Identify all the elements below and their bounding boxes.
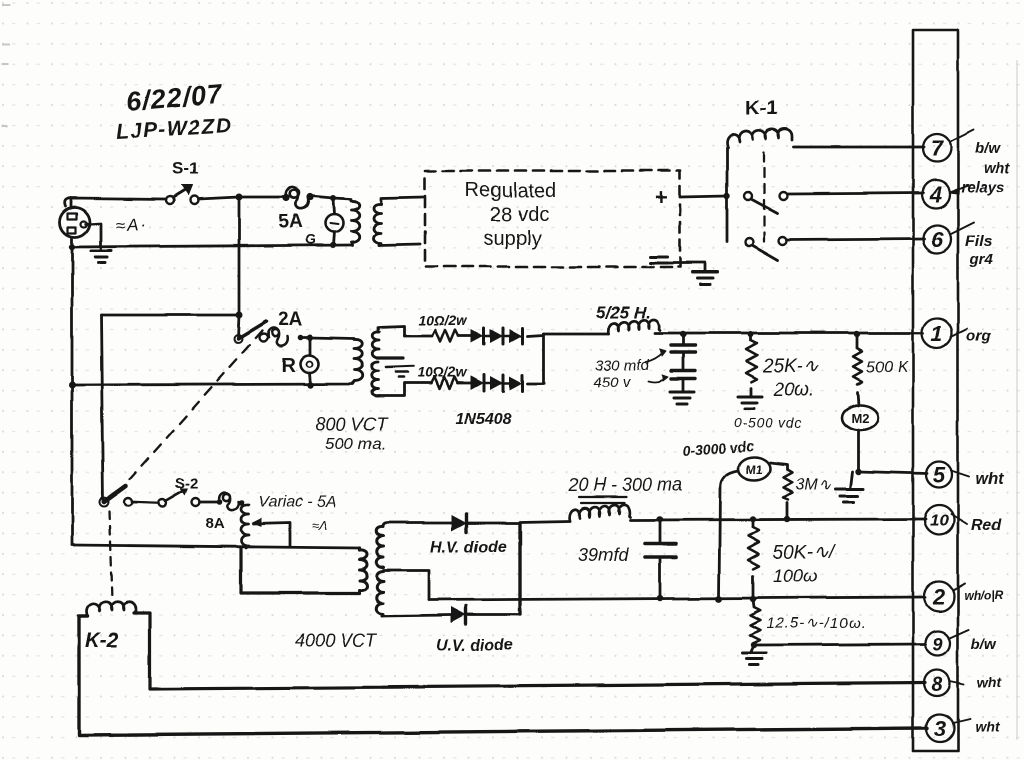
svg-text:gr4: gr4 (969, 251, 994, 268)
svg-text:8: 8 (931, 674, 943, 696)
svg-text:Fils: Fils (965, 233, 993, 250)
svg-text:wht: wht (975, 719, 1000, 735)
svg-text:U.V. diode: U.V. diode (436, 637, 513, 654)
svg-text:2A: 2A (278, 310, 303, 331)
svg-text:1N5408: 1N5408 (456, 411, 512, 428)
svg-text:H.V. diode: H.V. diode (430, 539, 507, 556)
svg-text:39mfd: 39mfd (578, 545, 629, 565)
svg-text:500 K: 500 K (866, 359, 909, 376)
svg-text:K-1: K-1 (745, 98, 777, 120)
svg-text:supply: supply (483, 228, 541, 250)
svg-text:5: 5 (933, 463, 946, 488)
svg-text:28 vdc: 28 vdc (490, 204, 549, 226)
svg-text:b/w: b/w (975, 140, 1001, 157)
svg-text:wh/o|R: wh/o|R (964, 588, 1004, 602)
svg-text:≈Λ: ≈Λ (312, 518, 328, 533)
svg-text:2: 2 (932, 584, 946, 609)
svg-text:wht: wht (975, 471, 1003, 488)
svg-text:4: 4 (929, 182, 942, 207)
svg-text:5/25 H.: 5/25 H. (596, 303, 651, 322)
svg-text:0-500 vdc: 0-500 vdc (734, 415, 803, 431)
svg-text:+: + (655, 185, 668, 210)
svg-text:800 VCT: 800 VCT (316, 414, 389, 434)
svg-text:G: G (305, 231, 316, 247)
svg-text:50K-∿/: 50K-∿/ (773, 542, 836, 563)
svg-text:9: 9 (933, 634, 943, 654)
svg-text:≈A·: ≈A· (115, 214, 148, 235)
svg-text:M2: M2 (851, 410, 869, 425)
svg-text:100ω: 100ω (773, 566, 817, 586)
svg-text:5A: 5A (278, 212, 303, 233)
svg-text:M1: M1 (746, 463, 763, 477)
svg-text:10Ω/2w: 10Ω/2w (418, 312, 468, 328)
svg-text:wht: wht (977, 674, 1002, 690)
svg-text:7: 7 (931, 136, 945, 161)
svg-text:12.5-∿-/10ω.: 12.5-∿-/10ω. (766, 615, 866, 632)
svg-text:500 ma.: 500 ma. (325, 434, 386, 453)
svg-text:330 mfd: 330 mfd (595, 357, 650, 374)
svg-text:1: 1 (931, 321, 943, 346)
svg-text:20 H - 300 ma: 20 H - 300 ma (567, 475, 682, 495)
svg-text:Regulated: Regulated (465, 180, 556, 202)
svg-text:6: 6 (931, 227, 944, 252)
svg-text:8A: 8A (206, 515, 225, 532)
svg-text:relays: relays (961, 179, 1004, 196)
svg-text:b/w: b/w (971, 636, 997, 653)
svg-text:20ω.: 20ω. (773, 380, 815, 401)
svg-text:10Ω/2w: 10Ω/2w (418, 364, 468, 380)
svg-text:Red: Red (971, 517, 1002, 534)
svg-text:org: org (966, 328, 990, 345)
svg-text:wht: wht (983, 160, 1010, 177)
svg-text:K-2: K-2 (85, 629, 119, 652)
svg-text:450 v: 450 v (593, 374, 631, 391)
svg-text:3M∿: 3M∿ (795, 477, 831, 494)
svg-text:4000 VCT: 4000 VCT (295, 631, 378, 651)
svg-text:S-2: S-2 (175, 475, 198, 492)
svg-text:3: 3 (934, 716, 946, 741)
svg-text:25K-∿: 25K-∿ (762, 356, 819, 377)
svg-text:10: 10 (930, 511, 949, 530)
svg-text:Variac - 5A: Variac - 5A (258, 494, 337, 511)
svg-text:S-1: S-1 (172, 159, 198, 178)
svg-text:R: R (281, 355, 296, 377)
